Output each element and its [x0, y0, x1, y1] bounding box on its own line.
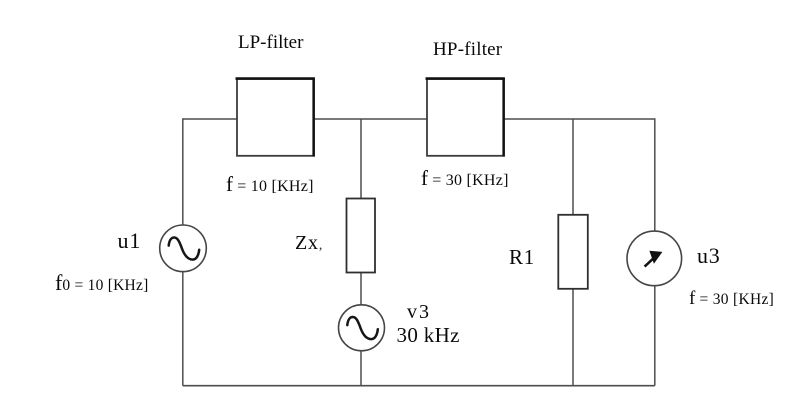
label R1 — [509, 245, 535, 270]
label u3 — [697, 243, 721, 269]
wire: top bus, u1 to LP-filter — [183, 118, 237, 120]
label HP-filter — [433, 39, 502, 61]
meter u3 (measuring source with arrow) — [627, 231, 682, 286]
wire: left branch, source u1 down to bottom bus — [182, 272, 184, 386]
source u1 (sine voltage source) — [160, 225, 207, 272]
wire: Zx branch, source v3 down to bottom bus — [360, 351, 362, 386]
label u1 — [118, 228, 142, 254]
wire: R1 branch, resistor R1 down to bottom bus — [572, 289, 574, 386]
wire: top bus, HP-filter to u3 branch — [504, 118, 655, 120]
value label 30 kHz (v3 frequency) — [397, 323, 460, 348]
wire: R1 branch, top bus down to resistor R1 — [572, 119, 574, 215]
resistor R1 — [558, 215, 588, 289]
wire: u3 branch, top bus down to meter u3 — [654, 118, 656, 232]
value label f = 30 [KHz] (HP cutoff) — [421, 166, 509, 191]
impedance Zx — [347, 199, 376, 273]
value label f = 30 [KHz] (u3 frequency) — [689, 288, 774, 310]
wire: bottom bus — [183, 385, 655, 387]
wire: u3 branch, meter u3 down to bottom bus — [654, 286, 656, 386]
value label f0 = 10 [KHz] (u1 frequency) — [55, 270, 149, 296]
source v3 (sine voltage source) — [339, 305, 385, 351]
value label f = 10 [KHz] (LP cutoff) — [226, 172, 314, 197]
label v3 — [407, 301, 431, 324]
wire: top bus, LP-filter to HP-filter — [314, 118, 427, 120]
filter block HP-filter — [426, 78, 505, 157]
filter block LP-filter — [236, 78, 315, 157]
label Zx — [295, 232, 323, 255]
wire: left branch, top bus down to source u1 — [182, 118, 184, 225]
wire: Zx branch, impedance Zx down to source v3 — [360, 273, 362, 306]
wire: Zx branch, top bus down to impedance Zx — [360, 119, 362, 199]
label LP-filter — [238, 32, 303, 54]
